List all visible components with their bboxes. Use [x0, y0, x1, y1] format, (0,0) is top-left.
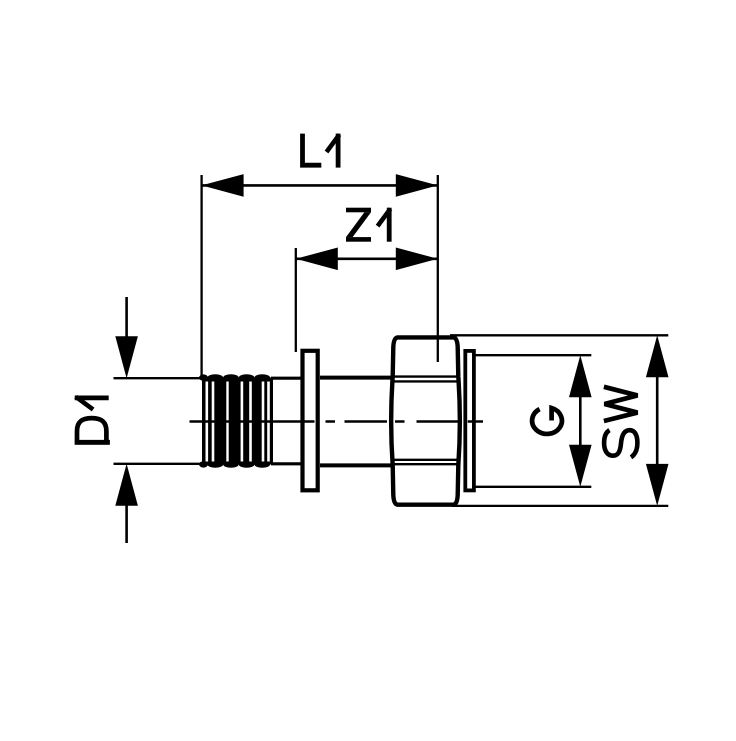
G extension lines: [475, 355, 592, 487]
Z1 left arrowhead: [296, 248, 338, 271]
G bottom arrowhead: [569, 445, 592, 487]
G top arrowhead: [569, 355, 592, 397]
label Z1: [346, 208, 371, 242]
SW extension lines: [450, 335, 668, 506]
dimension SW: [450, 335, 669, 506]
washer / threaded end: [465, 351, 474, 491]
D1 extension lines: [114, 378, 202, 464]
SW bottom arrowhead: [646, 464, 669, 506]
D1 dimension line segments: [125, 297, 128, 543]
hex union nut outline: [391, 337, 460, 504]
flange collar: [303, 351, 318, 491]
centerline dash-dot: [190, 420, 484, 423]
SW top arrowhead: [646, 335, 669, 377]
dimension L1: [202, 134, 438, 377]
SW dimension line: [656, 375, 659, 466]
L1/Z1 right extension line: [437, 175, 439, 362]
D1 bottom arrowhead: [115, 464, 138, 506]
label G: [532, 408, 562, 434]
cylinder between flange and nut: [320, 378, 392, 466]
G dimension line: [579, 395, 582, 447]
L1 dimension line: [202, 184, 438, 187]
L1 left arrowhead: [202, 174, 244, 197]
Z1 dimension line: [296, 257, 438, 260]
dimension Z1: [296, 208, 438, 352]
label SW: [604, 387, 638, 458]
dimension G: [475, 355, 592, 487]
label L1: [303, 134, 340, 168]
D1 top arrowhead: [115, 336, 138, 378]
nut facet lines: [392, 377, 460, 465]
Z1 left extension line: [295, 248, 297, 352]
press sleeve ribbed band: [199, 374, 273, 468]
L1 left extension line: [200, 175, 202, 377]
smooth spigot section lines: [271, 378, 302, 464]
L1 right arrowhead: [396, 174, 438, 197]
white thread slits: [206, 382, 209, 462]
label D1: [75, 397, 110, 443]
dimension D1: [75, 297, 201, 543]
Z1 right arrowhead: [396, 248, 438, 271]
